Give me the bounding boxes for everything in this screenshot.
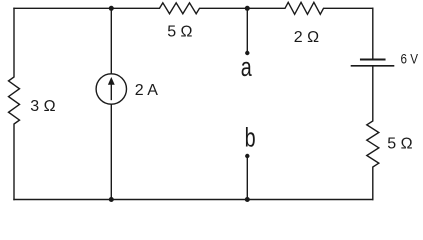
svg-text:2 A: 2 A bbox=[135, 82, 158, 99]
svg-text:2 Ω: 2 Ω bbox=[294, 29, 319, 46]
svg-text:b: b bbox=[245, 123, 256, 153]
svg-text:3 Ω: 3 Ω bbox=[30, 98, 55, 115]
svg-text:a: a bbox=[241, 52, 253, 82]
svg-text:5 Ω: 5 Ω bbox=[387, 136, 412, 153]
svg-text:5 Ω: 5 Ω bbox=[167, 24, 192, 41]
svg-text:6 V: 6 V bbox=[401, 51, 419, 67]
